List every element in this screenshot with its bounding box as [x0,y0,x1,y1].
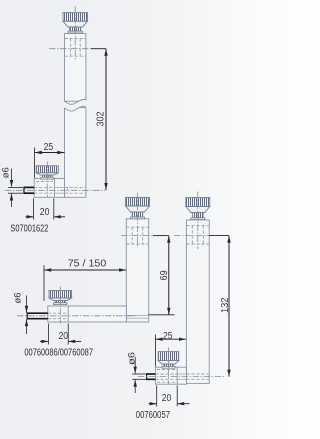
svg-text:69: 69 [159,270,170,280]
svg-text:20: 20 [59,331,69,342]
svg-text:132: 132 [220,297,231,313]
svg-text:ø6: ø6 [127,352,138,365]
svg-text:ø6: ø6 [0,167,11,178]
svg-text:20: 20 [40,207,50,218]
svg-text:20: 20 [162,393,172,404]
svg-text:25: 25 [163,331,173,342]
svg-text:302: 302 [96,111,107,126]
svg-text:75 / 150: 75 / 150 [68,257,107,269]
svg-text:25: 25 [44,142,54,153]
svg-text:00760057: 00760057 [136,410,171,421]
svg-text:ø6: ø6 [13,293,24,304]
svg-text:S07001622: S07001622 [10,223,48,234]
svg-text:00760086/00760087: 00760086/00760087 [24,347,93,358]
